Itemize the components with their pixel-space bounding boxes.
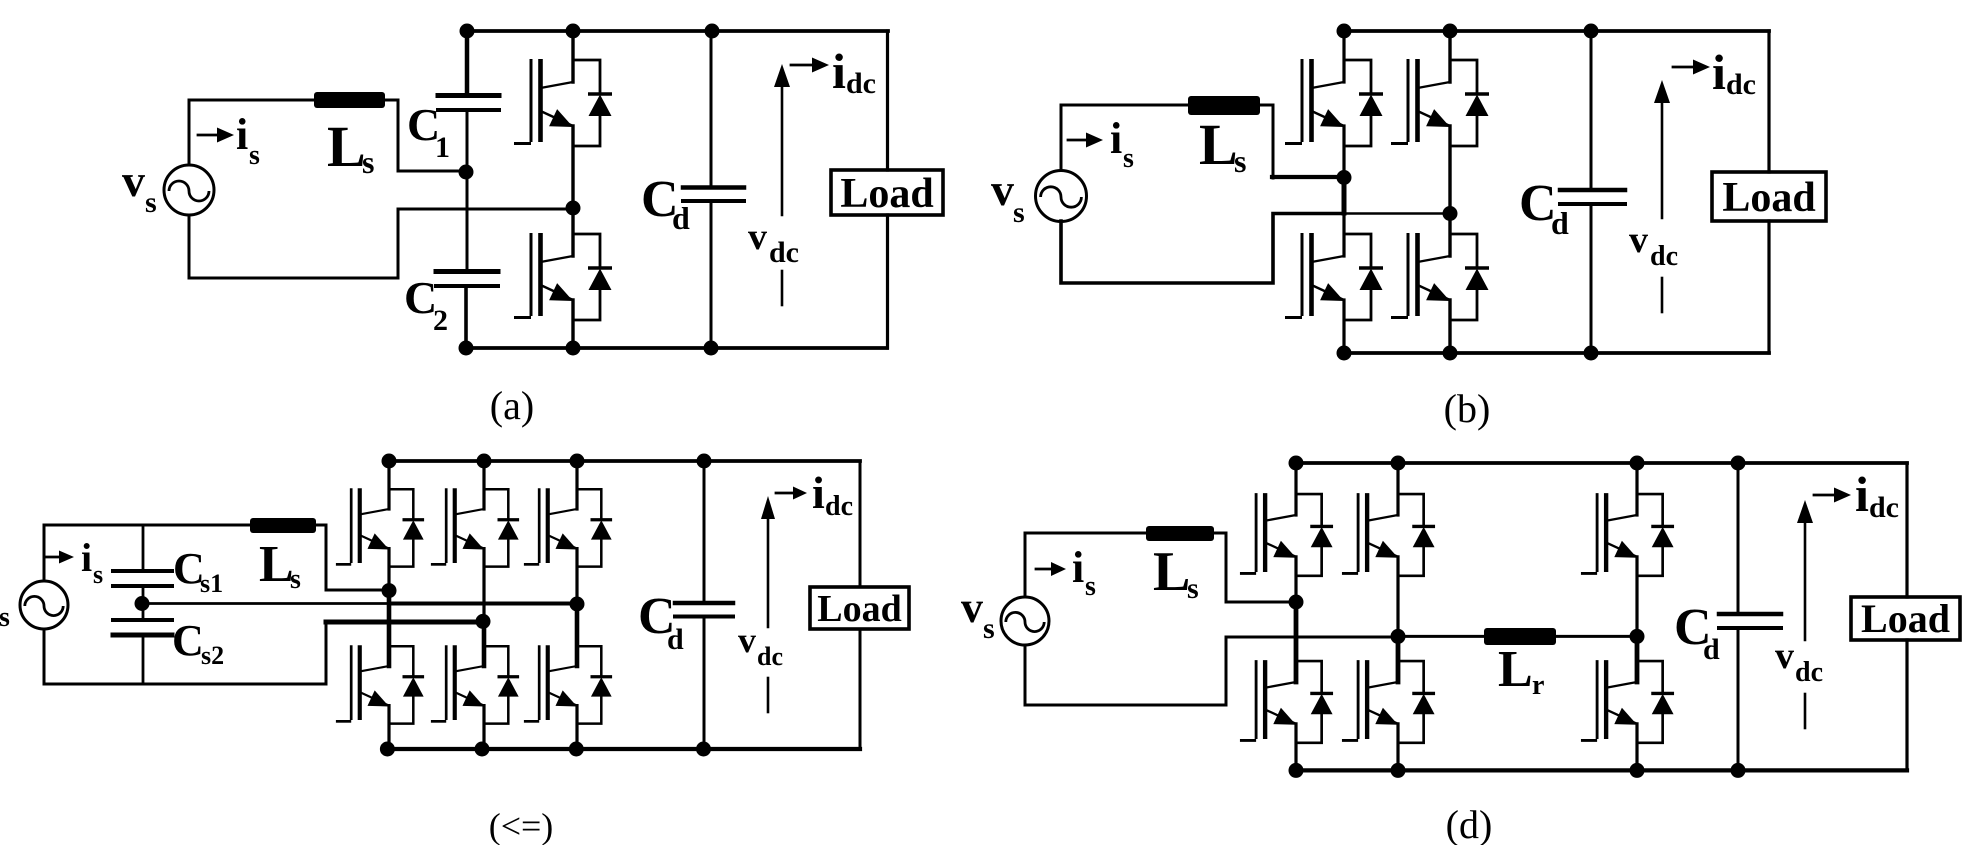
wire: right side through load (d) xyxy=(1905,463,1908,770)
label is (a) xyxy=(236,110,260,171)
label Ls (c) xyxy=(259,536,301,595)
wire: Cd branch (a) xyxy=(710,31,713,348)
wire: source bottom to leg2 midpoint (c) xyxy=(44,622,482,684)
wire: bottom rail (d) xyxy=(1296,768,1907,772)
wire: leg2 vertical thick segment (c) xyxy=(482,621,487,666)
junction leg2 midpoint node (c) xyxy=(476,614,491,629)
wire: leg3 vertical (c) xyxy=(575,461,578,749)
wire: bottom rail (c) xyxy=(387,747,860,751)
svg-text:s: s xyxy=(93,560,103,589)
svg-text:L: L xyxy=(1153,541,1190,603)
diode leg1 bottom (c) xyxy=(389,646,424,723)
wire: top rail (a) xyxy=(467,29,888,33)
svg-text:s: s xyxy=(1187,572,1199,605)
label idc (b) xyxy=(1712,44,1756,101)
svg-text:L: L xyxy=(1498,641,1533,698)
wire: top rail to C1 (a) xyxy=(465,31,470,93)
IGBT leg1 bottom (c) xyxy=(336,645,389,721)
label Ls (b) xyxy=(1199,112,1246,179)
IGBT leg2 top (b) xyxy=(1391,59,1450,144)
svg-text:r: r xyxy=(1532,670,1544,701)
wire: leg2 vertical (c) xyxy=(482,461,485,749)
IGBT leg2 bottom (b) xyxy=(1391,233,1450,318)
svg-text:i: i xyxy=(832,43,846,99)
junction leg3 midpoint node (c) xyxy=(570,597,585,612)
wire: Cd branch (d) xyxy=(1737,463,1740,770)
wire: leg1 vertical thick mid segment (b) xyxy=(1342,177,1347,213)
diode leg2 bottom (d) xyxy=(1398,661,1435,743)
svg-text:1: 1 xyxy=(435,131,450,164)
AC source Vs (a) xyxy=(164,165,214,215)
svg-text:d: d xyxy=(667,623,684,656)
wire: Ls to leg1 midpoint (d) xyxy=(1214,533,1296,602)
label Lr (d) xyxy=(1498,641,1544,701)
diode antiparallel bottom (a) xyxy=(573,234,612,320)
capacitor Cd (a) xyxy=(683,185,744,190)
junction Cs1-Cs2 midpoint node (c) xyxy=(135,596,150,611)
arrow idc (d) xyxy=(1814,494,1836,497)
junction bottom rail / leg1 (d) xyxy=(1289,763,1304,778)
load box (b) xyxy=(1712,172,1826,221)
svg-text:v: v xyxy=(1775,635,1794,677)
arrow is (c) xyxy=(46,556,60,559)
diode leg1 bottom (b) xyxy=(1344,234,1383,320)
capacitor Cd (d) xyxy=(1719,612,1781,617)
wire: leg3 vertical thick segment (c) xyxy=(575,604,580,666)
label Cs2 xyxy=(172,616,224,670)
svg-text:s1: s1 xyxy=(200,569,223,598)
svg-text:d: d xyxy=(1703,633,1720,666)
junction leg1 midpoint node (b) xyxy=(1337,170,1352,185)
wire: source top to Ls (a) xyxy=(189,100,314,165)
svg-text:dc: dc xyxy=(769,236,799,269)
arrow vdc (c) xyxy=(767,518,770,627)
IGBT leg2 top (c) xyxy=(431,488,484,564)
wire: Cd branch (b) xyxy=(1590,31,1593,353)
wire: source top to Ls (d) xyxy=(1025,533,1146,597)
wire: leg2 vertical thick segment (d) xyxy=(1396,636,1401,682)
label vs (a) xyxy=(122,155,157,219)
label vdc (d) xyxy=(1775,635,1823,688)
IGBT leg1 bottom (b) xyxy=(1285,233,1344,318)
svg-text:v: v xyxy=(961,583,983,632)
label idc (d) xyxy=(1855,466,1899,524)
wire: leg3 vertical (d) xyxy=(1635,463,1638,770)
svg-text:L: L xyxy=(327,114,366,179)
svg-text:dc: dc xyxy=(846,67,876,100)
svg-text:i: i xyxy=(1712,44,1726,100)
junction bottom rail / leg1 (b) xyxy=(1337,346,1352,361)
label Cd (b) xyxy=(1519,175,1569,241)
junction bottom rail / C2 (a) xyxy=(459,341,474,356)
inductor Ls (c) xyxy=(250,518,316,533)
wire: top rail (c) xyxy=(389,459,860,463)
junction top rail / Cd (a) xyxy=(705,24,720,39)
junction C1-C2 midpoint node (a) xyxy=(459,165,474,180)
wire: right side through load (c) xyxy=(859,461,862,749)
svg-text:(b): (b) xyxy=(1444,386,1491,431)
capacitor C1 xyxy=(438,93,499,98)
AC source Vs (c) xyxy=(20,581,68,629)
svg-text:L: L xyxy=(1199,112,1238,177)
junction top rail / leg3 (d) xyxy=(1630,456,1645,471)
wire: capacitor midpoint node wire left (c) xyxy=(142,602,389,605)
wire: source bottom to leg2 midpoint (d) xyxy=(1025,637,1398,705)
junction bottom rail / Cd (c) xyxy=(696,742,711,757)
svg-text:s: s xyxy=(1013,196,1025,229)
label vs (d) xyxy=(961,583,995,645)
wire: leg2 vertical (d) xyxy=(1396,463,1399,770)
svg-text:dc: dc xyxy=(757,642,783,671)
label C2 xyxy=(404,272,448,337)
arrow idc (b) xyxy=(1673,66,1694,69)
wire: C1 to C2 (a) xyxy=(466,112,469,269)
svg-text:i: i xyxy=(1072,543,1084,592)
svg-text:i: i xyxy=(236,110,248,159)
IGBT leg1 bottom (d) xyxy=(1240,660,1296,740)
wire: leg1 vertical thick segment (d) xyxy=(1294,602,1299,682)
junction leg1 midpoint node (d) xyxy=(1289,595,1304,610)
load box (c) xyxy=(810,587,909,630)
wire: leg2 vertical (b) xyxy=(1448,31,1451,353)
diode leg3 bottom (c) xyxy=(577,646,612,723)
diode leg2 bottom (b) xyxy=(1450,234,1489,320)
diode leg3 bottom (d) xyxy=(1637,661,1674,743)
svg-text:L: L xyxy=(259,536,294,593)
svg-text:i: i xyxy=(81,535,92,580)
svg-text:Load: Load xyxy=(1861,596,1950,641)
IGBT leg1 top (d) xyxy=(1240,493,1296,573)
arrow is (b) xyxy=(1068,139,1088,142)
junction bottom rail / leg2 (b) xyxy=(1443,346,1458,361)
diode leg2 top (c) xyxy=(484,489,519,566)
svg-text:d: d xyxy=(672,200,690,236)
junction bottom rail / leg2 (d) xyxy=(1391,763,1406,778)
IGBT leg1 top (c) xyxy=(336,488,389,564)
diode leg3 top (c) xyxy=(577,489,612,566)
wire: Cd branch (c) xyxy=(703,461,706,749)
inductor Lr (d) xyxy=(1484,628,1556,645)
wire: leg3 vertical thick segment (d) xyxy=(1635,636,1640,682)
label vdc (b) xyxy=(1629,219,1678,272)
diode leg2 bottom (c) xyxy=(484,646,519,723)
wire: Ls to capacitor midpoint (a) xyxy=(385,100,466,171)
junction bottom rail / leg1 (c) xyxy=(380,742,395,757)
label vdc (a) xyxy=(748,216,799,269)
svg-text:i: i xyxy=(1110,114,1122,163)
AC source Vs (b) xyxy=(1036,171,1087,222)
IGBT switch top (a) xyxy=(514,59,573,144)
svg-text:dc: dc xyxy=(1795,657,1823,688)
junction bottom rail / leg3 (d) xyxy=(1630,763,1645,778)
svg-text:2: 2 xyxy=(433,304,448,337)
arrow vdc (a) xyxy=(781,88,784,215)
svg-text:s: s xyxy=(362,144,374,180)
svg-text:s: s xyxy=(290,564,301,595)
diode antiparallel top (a) xyxy=(573,60,612,146)
IGBT leg1 top (b) xyxy=(1285,59,1344,144)
inductor Ls (d) xyxy=(1146,526,1214,541)
svg-text:(a): (a) xyxy=(490,383,534,428)
wire: capacitor midpoint node wire right (c) xyxy=(389,602,577,606)
arrow vdc (b) xyxy=(1661,104,1664,218)
label idc (c) xyxy=(812,467,853,522)
arrow idc (c) xyxy=(776,492,792,495)
load box (a) xyxy=(831,170,943,217)
svg-text:s: s xyxy=(1234,143,1246,179)
svg-text:v: v xyxy=(991,164,1014,215)
svg-text:s: s xyxy=(0,602,10,633)
inductor Ls (b) xyxy=(1188,96,1260,115)
label vs (b) xyxy=(991,164,1025,229)
label Cs1 xyxy=(173,544,223,598)
arrow is (d) xyxy=(1036,568,1052,571)
wire: source bottom to IGBT leg midpoint (a) xyxy=(189,209,571,278)
svg-text:s: s xyxy=(1085,571,1096,602)
wire: continuation to leg2 midpoint (b) xyxy=(1344,212,1450,215)
label C1 xyxy=(407,99,450,164)
label Ls (a) xyxy=(327,114,374,180)
svg-text:(d): (d) xyxy=(1446,802,1493,845)
junction top rail / leg1 (d) xyxy=(1289,456,1304,471)
IGBT leg2 bottom (d) xyxy=(1342,660,1398,740)
junction top rail / Cd (d) xyxy=(1731,456,1746,471)
wire: bottom rail (a) xyxy=(466,346,887,350)
wire: right side through load (b) xyxy=(1767,31,1770,353)
svg-text:dc: dc xyxy=(1650,241,1678,272)
junction top rail / leg2 (c) xyxy=(477,454,492,469)
svg-text:s: s xyxy=(983,612,995,645)
svg-text:dc: dc xyxy=(1869,491,1899,524)
junction top rail / leg1 (c) xyxy=(382,454,397,469)
svg-text:dc: dc xyxy=(1726,68,1756,101)
capacitor Cs2 xyxy=(113,618,172,622)
diode leg2 top (b) xyxy=(1450,60,1489,146)
IGBT leg2 bottom (c) xyxy=(431,645,484,721)
wire: stub to leg1 midpoint (b) xyxy=(1272,175,1344,179)
wire: bottom rail (b) xyxy=(1344,351,1769,355)
label is (d) xyxy=(1072,543,1096,602)
IGBT leg3 bottom (d) xyxy=(1581,660,1637,740)
label vs (c) xyxy=(0,573,10,633)
junction leg3 midpoint node (d) xyxy=(1630,629,1645,644)
svg-text:C: C xyxy=(172,616,204,665)
svg-text:s: s xyxy=(145,186,157,219)
IGBT leg3 top (d) xyxy=(1581,493,1637,573)
capacitor C2 xyxy=(436,269,498,274)
svg-text:v: v xyxy=(1629,219,1648,261)
junction top rail / leg2 (b) xyxy=(1443,24,1458,39)
wire: leg1 vertical (c) xyxy=(387,461,390,749)
svg-text:i: i xyxy=(812,467,825,518)
wire: leg1 vertical (b) xyxy=(1342,31,1345,353)
wire: right side through load (a) xyxy=(886,31,889,348)
wire: source bottom toward bridge (b) xyxy=(1061,214,1344,284)
junction top rail / leg1 (b) xyxy=(1337,24,1352,39)
diode leg3 top (d) xyxy=(1637,494,1674,576)
AC source Vs (d) xyxy=(1001,597,1049,645)
junction IGBT leg midpoint node (a) xyxy=(566,201,581,216)
label Cd (d) xyxy=(1674,599,1720,666)
junction top rail / C1 (a) xyxy=(460,24,475,39)
svg-text:v: v xyxy=(748,216,767,258)
wire: Ls down (b) xyxy=(1260,105,1273,178)
capacitor Cs1 xyxy=(113,569,172,573)
label Cd (a) xyxy=(641,171,690,236)
arrow idc (a) xyxy=(791,64,812,67)
wire: top rail (d) xyxy=(1296,461,1907,465)
svg-text:s: s xyxy=(249,140,260,171)
IGBT leg3 top (c) xyxy=(524,488,577,564)
svg-text:Load: Load xyxy=(1722,175,1815,221)
diode leg2 top (d) xyxy=(1398,494,1435,576)
wire: top rail (b) xyxy=(1344,29,1769,33)
wire: source top to Ls (c) xyxy=(44,525,250,581)
IGBT leg2 top (d) xyxy=(1342,493,1398,573)
wire: thick stub to leg2 midpoint (c) xyxy=(326,620,482,625)
wire: leg1 vertical thick segment (c) xyxy=(387,590,392,666)
wire: Ls to leg1 midpoint (c) xyxy=(316,525,389,590)
IGBT leg3 bottom (c) xyxy=(524,645,577,721)
junction top rail / IGBT leg (a) xyxy=(566,24,581,39)
label Cd (c) xyxy=(638,588,684,656)
wire: IGBT leg vertical (a) xyxy=(571,31,574,348)
junction bottom rail / leg3 (c) xyxy=(569,742,584,757)
diode leg1 bottom (d) xyxy=(1296,661,1333,743)
wire: source top to Ls (b) xyxy=(1061,105,1188,170)
svg-text:Load: Load xyxy=(840,171,933,217)
junction top rail / leg3 (c) xyxy=(570,454,585,469)
svg-text:i: i xyxy=(1855,466,1869,522)
capacitor Cd (c) xyxy=(675,601,733,606)
label is (b) xyxy=(1110,114,1134,174)
junction bottom rail / Cd (b) xyxy=(1584,346,1599,361)
junction leg2 midpoint node (d) xyxy=(1391,629,1406,644)
svg-text:v: v xyxy=(122,155,145,206)
svg-text:s2: s2 xyxy=(201,641,224,670)
diode leg1 top (c) xyxy=(389,489,424,566)
wire: leg1 vertical (d) xyxy=(1294,463,1297,770)
svg-text:d: d xyxy=(1551,205,1569,241)
label vdc (c) xyxy=(738,620,783,671)
label is (c) xyxy=(81,535,103,589)
load box (d) xyxy=(1851,596,1960,641)
arrow vdc (d) xyxy=(1804,522,1807,640)
capacitor Cd (b) xyxy=(1560,188,1625,193)
label Ls (d) xyxy=(1153,541,1199,605)
inductor Ls (a) xyxy=(314,92,385,108)
junction bottom rail / Cd (a) xyxy=(704,341,719,356)
junction top rail / Cd (b) xyxy=(1584,24,1599,39)
junction top rail / leg2 (d) xyxy=(1391,456,1406,471)
diode leg1 top (d) xyxy=(1296,494,1333,576)
svg-text:Load: Load xyxy=(817,588,901,630)
junction bottom rail / IGBT leg (a) xyxy=(566,341,581,356)
svg-text:dc: dc xyxy=(825,491,853,522)
junction leg2 midpoint node (b) xyxy=(1443,206,1458,221)
svg-text:(<=): (<=) xyxy=(489,806,554,845)
svg-text:v: v xyxy=(738,620,756,660)
junction top rail / Cd (c) xyxy=(697,454,712,469)
junction bottom rail / leg2 (c) xyxy=(475,742,490,757)
wire: Lr link (d) xyxy=(1398,635,1637,638)
diode leg1 top (b) xyxy=(1344,60,1383,146)
wire: Cs1/Cs2 branch vertical (c) xyxy=(142,525,145,684)
wire: C2 to bottom rail (a) xyxy=(464,288,468,348)
junction leg1 midpoint node (c) xyxy=(382,583,397,598)
junction bottom rail / Cd (d) xyxy=(1731,763,1746,778)
label idc (a) xyxy=(832,43,876,100)
IGBT switch bottom (a) xyxy=(514,233,573,318)
arrow is (a) xyxy=(198,134,218,137)
svg-text:s: s xyxy=(1123,143,1134,174)
